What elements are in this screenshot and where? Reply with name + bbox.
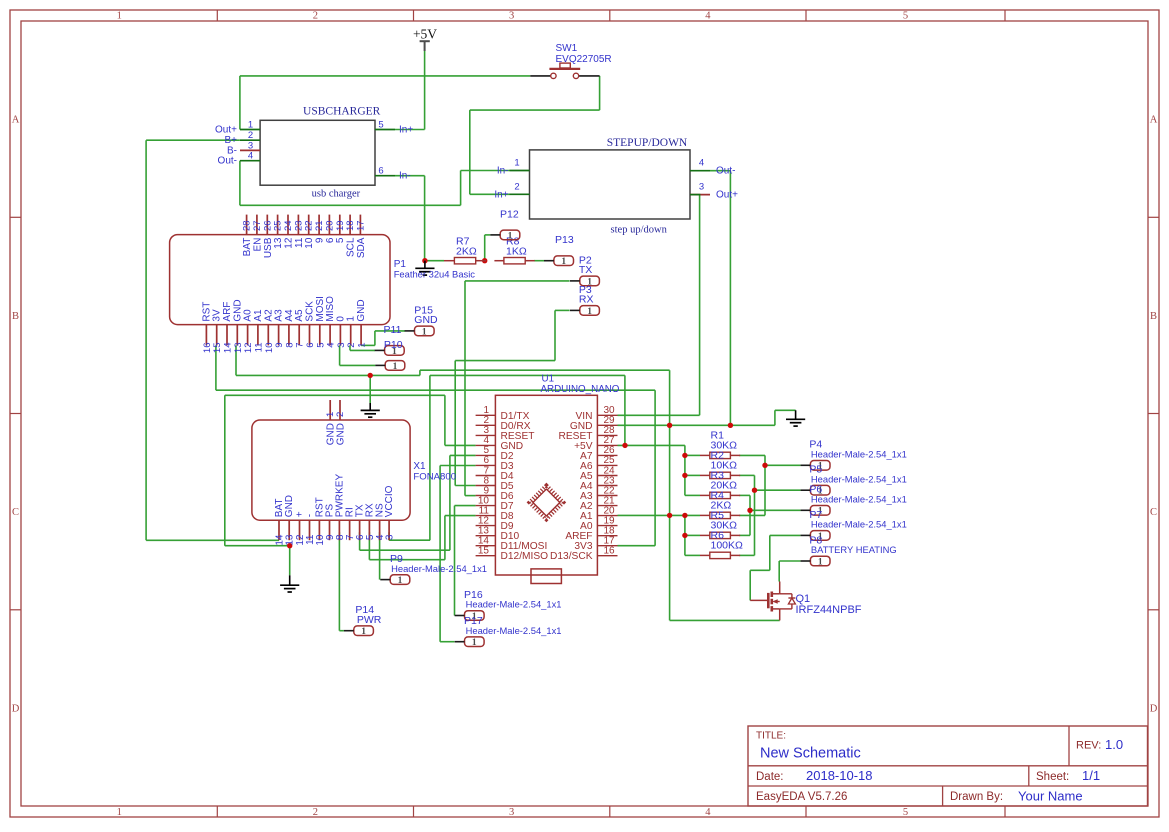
svg-text:B: B <box>1150 311 1157 322</box>
svg-text:A: A <box>1150 115 1158 126</box>
svg-text:REV:: REV: <box>1076 740 1101 752</box>
svg-text:D: D <box>12 704 20 715</box>
svg-text:100KΩ: 100KΩ <box>711 540 744 552</box>
svg-text:Header-Male-2.54_1x1: Header-Male-2.54_1x1 <box>811 519 907 530</box>
svg-text:1KΩ: 1KΩ <box>506 246 527 258</box>
svg-text:D: D <box>1150 704 1158 715</box>
svg-text:U1: U1 <box>542 374 555 385</box>
svg-text:A1: A1 <box>253 309 264 322</box>
svg-text:P12: P12 <box>500 208 519 220</box>
svg-text:2: 2 <box>346 343 357 348</box>
svg-text:1: 1 <box>357 343 368 348</box>
svg-text:3: 3 <box>509 11 514 22</box>
svg-text:5: 5 <box>335 237 346 243</box>
svg-text:GND: GND <box>356 299 367 321</box>
svg-text:1: 1 <box>508 231 513 241</box>
svg-text:Header-Male-2.54_1x1: Header-Male-2.54_1x1 <box>466 599 562 610</box>
svg-text:D13/SCK: D13/SCK <box>550 551 593 562</box>
svg-text:1: 1 <box>346 316 357 322</box>
svg-text:27: 27 <box>252 220 263 231</box>
svg-text:1: 1 <box>117 11 122 22</box>
svg-text:C: C <box>12 507 19 518</box>
svg-text:Header-Male-2.54_1x1: Header-Male-2.54_1x1 <box>391 563 487 574</box>
svg-text:2: 2 <box>335 412 346 417</box>
svg-text:GND: GND <box>414 314 438 326</box>
svg-text:24: 24 <box>283 220 294 231</box>
svg-text:22: 22 <box>304 220 315 231</box>
svg-text:12: 12 <box>284 237 295 249</box>
svg-text:2KΩ: 2KΩ <box>456 246 477 258</box>
svg-text:Header-Male-2.54_1x1: Header-Male-2.54_1x1 <box>466 625 562 636</box>
svg-text:4: 4 <box>699 158 704 169</box>
svg-text:4: 4 <box>705 807 711 818</box>
svg-text:1.0: 1.0 <box>1105 737 1123 752</box>
svg-text:25: 25 <box>273 220 284 231</box>
svg-text:1: 1 <box>561 257 566 267</box>
svg-text:Out+: Out+ <box>716 190 738 201</box>
svg-text:GND: GND <box>336 423 347 445</box>
svg-text:P11: P11 <box>384 324 402 336</box>
svg-text:4: 4 <box>705 11 711 22</box>
svg-text:D12/MISO: D12/MISO <box>501 551 549 562</box>
svg-text:1: 1 <box>472 638 477 648</box>
svg-text:10: 10 <box>304 237 315 249</box>
svg-text:1: 1 <box>393 362 398 372</box>
svg-text:EasyEDA V5.7.26: EasyEDA V5.7.26 <box>756 791 847 803</box>
svg-text:Drawn By:: Drawn By: <box>950 791 1003 803</box>
svg-text:2018-10-18: 2018-10-18 <box>806 768 873 783</box>
svg-text:Date:: Date: <box>756 771 784 783</box>
svg-text:New Schematic: New Schematic <box>760 746 861 762</box>
svg-text:5: 5 <box>378 120 383 131</box>
svg-text:1: 1 <box>422 327 427 337</box>
svg-text:EN: EN <box>252 238 263 252</box>
svg-text:A: A <box>12 115 20 126</box>
svg-text:RX: RX <box>579 294 594 306</box>
svg-text:B: B <box>12 311 19 322</box>
svg-text:1: 1 <box>514 158 519 169</box>
svg-text:Header-Male-2.54_1x1: Header-Male-2.54_1x1 <box>811 473 907 484</box>
svg-text:1: 1 <box>248 120 253 131</box>
svg-text:3: 3 <box>385 534 396 540</box>
svg-text:1: 1 <box>398 576 403 586</box>
svg-text:1: 1 <box>818 557 823 567</box>
svg-text:Out-: Out- <box>716 166 735 177</box>
svg-text:BATTERY HEATING: BATTERY HEATING <box>811 544 897 555</box>
svg-text:1: 1 <box>117 807 122 818</box>
svg-text:1: 1 <box>361 627 366 637</box>
svg-text:Feather 32u4 Basic: Feather 32u4 Basic <box>394 269 476 280</box>
svg-text:16: 16 <box>604 546 616 557</box>
svg-text:USBCHARGER: USBCHARGER <box>303 106 381 118</box>
svg-text:+5V: +5V <box>413 26 437 41</box>
svg-text:Header-Male-2.54_1x1: Header-Male-2.54_1x1 <box>811 494 907 505</box>
svg-text:2: 2 <box>514 181 519 192</box>
svg-text:C: C <box>1150 507 1157 518</box>
svg-text:Header-Male-2.54_1x1: Header-Male-2.54_1x1 <box>811 449 907 460</box>
svg-text:FONA800: FONA800 <box>413 471 456 482</box>
svg-text:PWR: PWR <box>357 614 382 626</box>
svg-text:5: 5 <box>903 11 908 22</box>
svg-text:20: 20 <box>324 220 335 231</box>
svg-text:EVQ22705R: EVQ22705R <box>556 54 612 65</box>
svg-text:In-: In- <box>497 166 509 177</box>
svg-text:VCCIO: VCCIO <box>384 485 395 517</box>
svg-text:step up/down: step up/down <box>611 225 668 236</box>
svg-text:Out-: Out- <box>218 156 237 167</box>
svg-text:17: 17 <box>355 220 366 231</box>
svg-text:1/1: 1/1 <box>1082 768 1100 783</box>
svg-text:STEPUP/DOWN: STEPUP/DOWN <box>607 137 688 149</box>
svg-text:In-: In- <box>399 171 411 182</box>
svg-text:P13: P13 <box>555 234 574 246</box>
svg-text:SW1: SW1 <box>556 43 578 54</box>
svg-text:ARDUINO_NANO: ARDUINO_NANO <box>541 384 620 395</box>
svg-text:13: 13 <box>273 237 284 249</box>
svg-text:Your Name: Your Name <box>1018 789 1083 804</box>
svg-text:IRFZ44NPBF: IRFZ44NPBF <box>796 604 862 616</box>
svg-text:X1: X1 <box>413 461 426 472</box>
svg-text:2: 2 <box>313 11 318 22</box>
svg-text:2: 2 <box>313 807 318 818</box>
svg-text:Out+: Out+ <box>215 125 237 136</box>
svg-text:11: 11 <box>253 343 264 353</box>
svg-text:Sheet:: Sheet: <box>1036 771 1069 783</box>
svg-text:4: 4 <box>248 151 253 162</box>
svg-text:SDA: SDA <box>356 237 367 258</box>
svg-text:TX: TX <box>579 264 592 276</box>
svg-text:3: 3 <box>509 807 514 818</box>
svg-text:15: 15 <box>478 546 490 557</box>
svg-text:P10: P10 <box>384 339 403 351</box>
svg-text:3: 3 <box>699 182 704 193</box>
svg-text:TITLE:: TITLE: <box>756 731 786 742</box>
svg-text:6: 6 <box>378 166 383 177</box>
svg-text:In+: In+ <box>399 125 413 136</box>
svg-text:1: 1 <box>587 307 592 317</box>
svg-text:In+: In+ <box>494 189 508 200</box>
svg-text:usb charger: usb charger <box>312 189 361 200</box>
svg-text:5: 5 <box>903 807 908 818</box>
